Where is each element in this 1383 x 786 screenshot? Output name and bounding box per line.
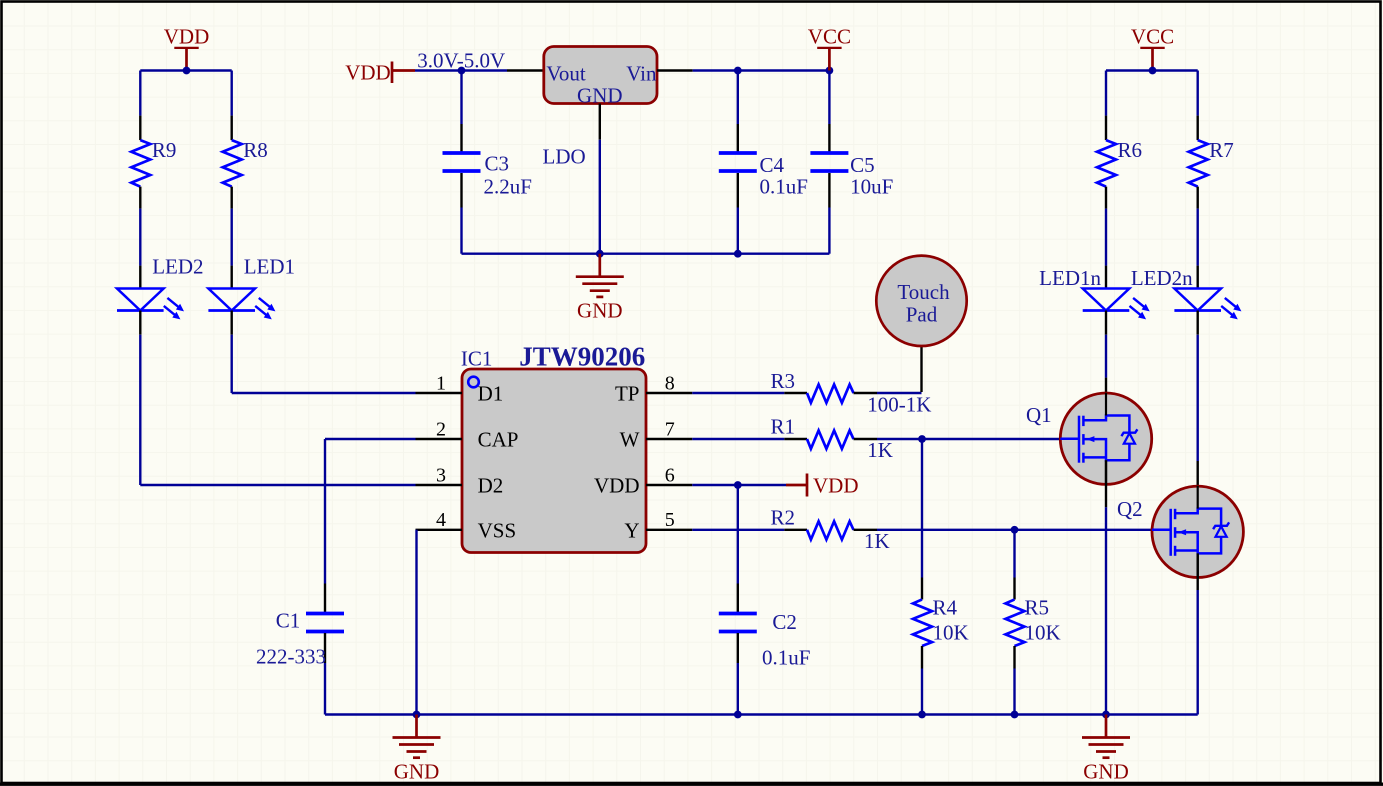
svg-text:4: 4 bbox=[436, 509, 446, 531]
svg-text:TP: TP bbox=[615, 382, 640, 406]
svg-text:7: 7 bbox=[665, 418, 675, 440]
svg-text:R4: R4 bbox=[933, 596, 958, 620]
svg-text:Vin: Vin bbox=[626, 61, 657, 85]
svg-text:GND: GND bbox=[577, 299, 623, 323]
svg-text:1: 1 bbox=[436, 372, 446, 394]
svg-text:8: 8 bbox=[665, 372, 675, 394]
svg-text:CAP: CAP bbox=[478, 428, 519, 452]
svg-text:3: 3 bbox=[436, 464, 446, 486]
svg-text:1K: 1K bbox=[864, 529, 890, 553]
svg-text:10uF: 10uF bbox=[850, 175, 893, 199]
svg-text:2.2uF: 2.2uF bbox=[484, 175, 532, 199]
svg-text:Y: Y bbox=[624, 519, 639, 543]
svg-text:1K: 1K bbox=[867, 438, 893, 462]
svg-text:100-1K: 100-1K bbox=[867, 393, 931, 417]
svg-text:222-333: 222-333 bbox=[256, 645, 326, 669]
svg-text:R5: R5 bbox=[1025, 596, 1050, 620]
svg-text:10K: 10K bbox=[1025, 621, 1061, 645]
svg-text:LED1n: LED1n bbox=[1039, 266, 1101, 290]
svg-text:R6: R6 bbox=[1118, 138, 1143, 162]
svg-text:C3: C3 bbox=[485, 152, 510, 176]
svg-text:VDD: VDD bbox=[345, 61, 391, 85]
svg-text:C1: C1 bbox=[276, 609, 301, 633]
svg-text:6: 6 bbox=[665, 464, 675, 486]
svg-text:R8: R8 bbox=[243, 138, 268, 162]
svg-text:D2: D2 bbox=[478, 474, 504, 498]
svg-text:3.0V-5.0V: 3.0V-5.0V bbox=[417, 49, 505, 73]
svg-text:R2: R2 bbox=[771, 505, 796, 529]
svg-text:10K: 10K bbox=[933, 621, 969, 645]
svg-text:2: 2 bbox=[436, 418, 446, 440]
svg-text:VCC: VCC bbox=[1131, 25, 1174, 49]
svg-text:JTW90206: JTW90206 bbox=[519, 342, 645, 372]
svg-text:R9: R9 bbox=[152, 138, 177, 162]
svg-text:VDD: VDD bbox=[164, 25, 210, 49]
svg-text:LDO: LDO bbox=[543, 145, 586, 169]
svg-text:VSS: VSS bbox=[478, 519, 517, 543]
svg-text:Pad: Pad bbox=[906, 303, 938, 327]
svg-text:5: 5 bbox=[665, 509, 675, 531]
svg-text:IC1: IC1 bbox=[461, 347, 493, 371]
svg-text:LED2: LED2 bbox=[152, 255, 203, 279]
svg-text:C5: C5 bbox=[850, 153, 875, 177]
svg-text:GND: GND bbox=[394, 760, 440, 784]
svg-text:VDD: VDD bbox=[594, 474, 640, 498]
svg-text:Q2: Q2 bbox=[1117, 497, 1143, 521]
svg-text:GND: GND bbox=[1083, 760, 1129, 784]
svg-text:C4: C4 bbox=[760, 153, 785, 177]
svg-text:VDD: VDD bbox=[813, 473, 859, 497]
svg-text:C2: C2 bbox=[772, 610, 797, 634]
svg-text:VCC: VCC bbox=[808, 25, 851, 49]
svg-text:R1: R1 bbox=[771, 415, 796, 439]
svg-text:Vout: Vout bbox=[546, 61, 585, 85]
svg-text:D1: D1 bbox=[478, 382, 504, 406]
svg-text:Q1: Q1 bbox=[1026, 403, 1052, 427]
svg-text:Touch: Touch bbox=[897, 280, 950, 304]
svg-text:LED2n: LED2n bbox=[1131, 266, 1193, 290]
svg-text:LED1: LED1 bbox=[244, 255, 295, 279]
svg-text:R7: R7 bbox=[1209, 138, 1234, 162]
svg-text:0.1uF: 0.1uF bbox=[762, 646, 810, 670]
svg-text:W: W bbox=[620, 428, 640, 452]
svg-text:R3: R3 bbox=[771, 369, 796, 393]
svg-text:0.1uF: 0.1uF bbox=[760, 175, 808, 199]
